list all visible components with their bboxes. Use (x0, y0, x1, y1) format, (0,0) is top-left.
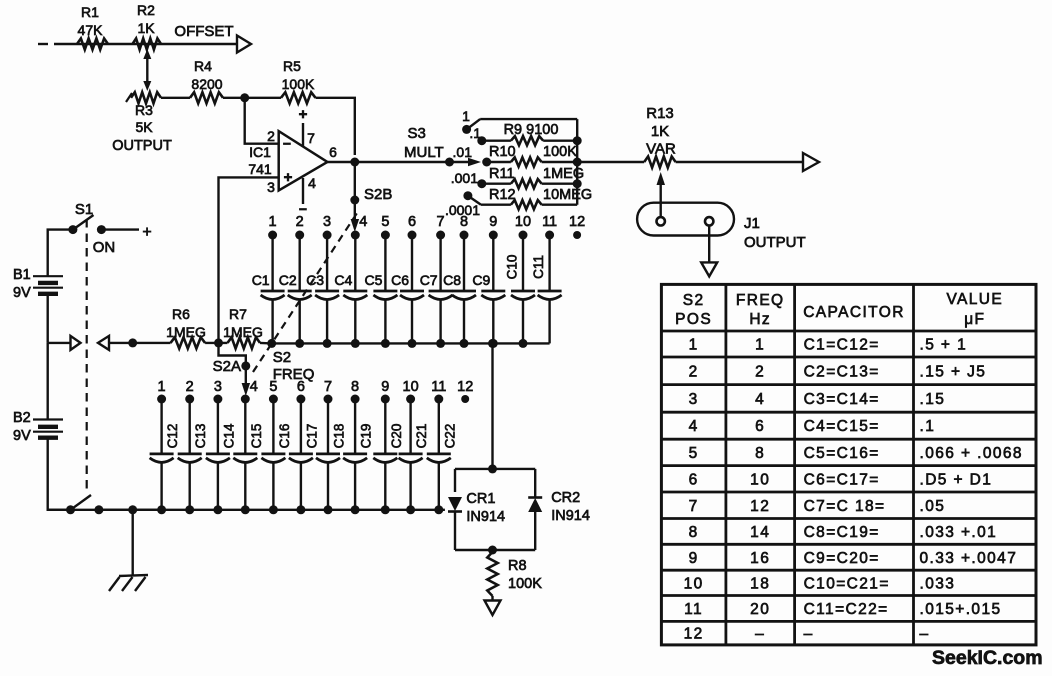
svg-text:C2=C13=: C2=C13= (804, 363, 880, 380)
op-amp minus input sign (283, 136, 291, 152)
S3 label 1 (462, 108, 470, 124)
node ground stem top (128, 338, 137, 347)
diode clamp box right upper (534, 469, 536, 497)
wire B2 to bottom (48, 438, 71, 510)
svg-text:R2: R2 (137, 2, 155, 18)
svg-text:OUTPUT: OUTPUT (744, 234, 806, 251)
S3 label .001 (451, 170, 478, 186)
S3 contact 1 (462, 119, 480, 134)
svg-text:5: 5 (689, 445, 699, 462)
svg-text:μF: μF (964, 311, 985, 328)
svg-text:.033 +.01: .033 +.01 (920, 524, 998, 541)
svg-text:C19: C19 (359, 424, 374, 449)
svg-text:0.33 +.0047: 0.33 +.0047 (920, 550, 1018, 567)
svg-text:C16: C16 (277, 424, 292, 449)
svg-text:R9 9100: R9 9100 (504, 122, 559, 138)
wire offset rail (54, 43, 237, 45)
label R2 1K (137, 2, 155, 36)
label J1 OUTPUT (744, 215, 806, 251)
svg-text:IN914: IN914 (466, 509, 505, 525)
resistor R5 (281, 92, 316, 103)
svg-text:6: 6 (689, 471, 699, 488)
svg-text:C5: C5 (364, 272, 382, 288)
battery mid tap arrow (48, 336, 81, 350)
svg-text:OUTPUT: OUTPUT (112, 138, 172, 154)
svg-text:CR1: CR1 (466, 491, 495, 507)
J1 tip terminal (657, 217, 665, 225)
node bus-R11 (573, 179, 582, 188)
S3 wiper arrow (450, 158, 482, 166)
wire S3 pos1 to bus (480, 118, 577, 120)
svg-text:C4=C15=: C4=C15= (804, 418, 880, 435)
svg-text:IN914: IN914 (551, 508, 590, 524)
resistor R8 (487, 552, 497, 596)
resistor R6 (171, 337, 206, 348)
svg-text:C21: C21 (414, 424, 429, 449)
resistor R3 (pot) (126, 92, 161, 103)
resistor R1 (77, 38, 108, 49)
diode clamp box right lower (534, 512, 536, 550)
wire R9 to bus (543, 139, 577, 141)
svg-text:C7=C 18=: C7=C 18= (804, 498, 886, 515)
diode clamp box top (455, 468, 535, 470)
wire R4-node (223, 97, 245, 99)
svg-text:C6=C17=: C6=C17= (804, 471, 880, 488)
label R8 100K (508, 558, 542, 592)
wire R12 to bus (542, 203, 578, 205)
svg-text:C11: C11 (531, 255, 546, 279)
pin 7 wire (302, 123, 304, 146)
svg-text:1MEG: 1MEG (223, 324, 263, 340)
S3 contact .01 (482, 158, 491, 167)
label ON (93, 239, 116, 256)
node clamp bottom (488, 546, 497, 555)
label R5 100K (282, 58, 315, 92)
label IC1 741 (248, 144, 272, 177)
wire B1 to mid (47, 294, 49, 343)
svg-text:C20: C20 (389, 424, 404, 449)
svg-text:1: 1 (158, 379, 166, 395)
wire B1-B2 (47, 343, 49, 420)
label R3 5K OUTPUT (112, 102, 172, 154)
label S3 MULT (404, 125, 444, 161)
switch S1 pole A (68, 215, 106, 234)
svg-text:C10: C10 (505, 255, 520, 280)
svg-text:C9=C20=: C9=C20= (804, 550, 880, 567)
label CR1 IN914 (466, 491, 505, 525)
svg-text:2: 2 (755, 363, 765, 380)
svg-text:6: 6 (408, 214, 416, 230)
svg-text:9: 9 (489, 214, 497, 230)
label R10 (489, 144, 516, 160)
wire R3-R4 (161, 97, 190, 99)
S2B pivot dot (350, 196, 359, 205)
resistor R12 (511, 200, 542, 209)
svg-text:3: 3 (214, 379, 222, 395)
pin 4 label (308, 175, 316, 191)
svg-text:.D5 + D1: .D5 + D1 (920, 471, 993, 488)
svg-text:12: 12 (750, 498, 770, 515)
wire pole B to bus (99, 509, 162, 511)
svg-text:CR2: CR2 (551, 490, 580, 506)
svg-text:R12: R12 (489, 187, 516, 203)
svg-text:B1: B1 (13, 267, 31, 283)
wire C9 column to clamp (491, 343, 493, 465)
label S2B (364, 186, 392, 203)
svg-text:1K: 1K (651, 123, 669, 140)
mid rail left arrow (98, 336, 109, 350)
svg-text:14: 14 (750, 524, 770, 541)
wire offset lead-in dash (38, 43, 48, 45)
svg-text:VALUE: VALUE (946, 291, 1003, 308)
svg-text:R13: R13 (646, 105, 674, 122)
svg-text:2: 2 (296, 214, 304, 230)
R2 wiper arrow (143, 49, 151, 91)
svg-text:100K: 100K (508, 576, 542, 592)
S2A position numbers 1-12 (158, 379, 474, 395)
S2A wiper arrow (242, 369, 251, 396)
svg-text:–: – (920, 626, 930, 643)
svg-text:4: 4 (755, 391, 765, 408)
svg-text:1: 1 (755, 337, 765, 354)
svg-text:C15: C15 (249, 424, 264, 449)
final output arrow (803, 153, 819, 171)
svg-text:POS: POS (675, 311, 712, 328)
node bus-R10 (573, 158, 582, 167)
S2B contact dots (268, 231, 581, 240)
svg-text:.15: .15 (920, 391, 946, 408)
svg-text:4: 4 (359, 214, 367, 230)
diode clamp box left lower (454, 512, 456, 551)
pin 7 label (307, 130, 315, 146)
svg-text:5: 5 (381, 214, 389, 230)
diode CR2 (528, 498, 542, 513)
offset output arrow (237, 36, 251, 53)
S3 label .0001 (445, 202, 480, 218)
wire opamp output (327, 161, 354, 163)
wire to pin 3 (219, 177, 279, 343)
wire output to S3 wiper (355, 161, 450, 163)
svg-text:C17: C17 (304, 424, 319, 449)
svg-text:7: 7 (689, 498, 699, 515)
bottom capacitor bus (48, 505, 445, 514)
node pin3 rail (214, 338, 223, 347)
wire feedback (316, 98, 355, 155)
svg-text:C22: C22 (442, 424, 457, 449)
label R13 1K VAR (646, 105, 676, 158)
label B2 9V (13, 410, 31, 444)
svg-text:100K: 100K (282, 76, 315, 92)
svg-text:R6: R6 (172, 306, 190, 322)
diode clamp box bottom (455, 549, 535, 551)
svg-text:C3: C3 (306, 272, 324, 288)
S2A pivot dot (241, 361, 250, 370)
ground stem (131, 510, 133, 575)
label 1MEG (543, 166, 584, 182)
svg-text:5K: 5K (135, 119, 153, 135)
svg-text:–: – (804, 626, 814, 643)
svg-text:2: 2 (186, 379, 194, 395)
svg-text:+: + (142, 224, 151, 241)
node bus-ground junction (128, 505, 137, 514)
pin 2 label (267, 128, 275, 144)
label S2A (213, 358, 241, 375)
svg-text:8: 8 (351, 379, 359, 395)
label 100K (543, 144, 577, 160)
svg-text:.001: .001 (451, 170, 478, 186)
svg-text:18: 18 (750, 575, 770, 592)
svg-text:C6: C6 (391, 272, 409, 288)
S3 wiper dot (445, 158, 454, 167)
pin 6 label (329, 144, 337, 160)
svg-text:C1=C12=: C1=C12= (804, 337, 880, 354)
label S2 FREQ (273, 349, 315, 383)
svg-text:MULT: MULT (404, 144, 444, 161)
table rows (684, 337, 1023, 643)
label CR2 IN914 (551, 490, 590, 524)
svg-text:7: 7 (307, 130, 315, 146)
resistor R10 (511, 157, 542, 166)
svg-text:C4: C4 (334, 272, 352, 288)
wire battery top (48, 230, 73, 277)
top capacitor bus (272, 339, 550, 348)
resistor R11 (511, 179, 542, 188)
svg-text:+: + (284, 169, 293, 186)
svg-text:C8: C8 (443, 272, 461, 288)
labels C1-C11 (252, 255, 547, 288)
svg-text:.01: .01 (453, 144, 473, 160)
wire .01 to R10 (487, 161, 511, 163)
svg-text:OFFSET: OFFSET (174, 23, 233, 40)
svg-text:S2: S2 (683, 292, 705, 309)
svg-text:8: 8 (755, 445, 765, 462)
svg-text:2: 2 (689, 363, 699, 380)
wire node-R5 (245, 97, 281, 99)
resistor R13 (644, 156, 675, 167)
svg-text:R5: R5 (283, 58, 301, 74)
svg-text:C5=C16=: C5=C16= (804, 445, 880, 462)
S3 contact .1 (477, 136, 486, 145)
svg-text:Hz: Hz (749, 311, 771, 328)
node bus-R9 (573, 136, 582, 145)
svg-text:C12: C12 (165, 424, 180, 449)
S2A feed wire (219, 343, 246, 362)
wire S1 to plus (101, 228, 139, 230)
battery B2 (33, 420, 63, 438)
svg-text:FREQ: FREQ (273, 366, 315, 383)
resistor R4 (190, 92, 223, 103)
svg-text:3: 3 (689, 391, 699, 408)
wire R6-R7 (205, 342, 227, 344)
svg-text:10: 10 (750, 471, 770, 488)
svg-text:1MEG: 1MEG (166, 324, 206, 340)
R13 wiper arrow (657, 172, 666, 217)
node clamp top (488, 464, 497, 473)
label R4 8200 (191, 58, 222, 92)
svg-text:C2: C2 (279, 272, 297, 288)
svg-text:3: 3 (323, 214, 331, 230)
svg-text:.15 + J5: .15 + J5 (920, 363, 987, 380)
svg-text:1: 1 (689, 337, 699, 354)
wire R10 to bus (542, 161, 578, 163)
svg-text:S3: S3 (408, 125, 426, 142)
op-amp plus input sign (284, 169, 293, 186)
svg-text:C18: C18 (332, 424, 347, 449)
svg-text:C10=C21=: C10=C21= (804, 575, 890, 592)
svg-text:8: 8 (460, 214, 468, 230)
wire to pin 2 (245, 98, 279, 144)
resistor R2 (pot) (133, 38, 162, 49)
svg-text:C14: C14 (221, 423, 236, 448)
pin 4 minus (299, 201, 307, 217)
node opamp output (350, 158, 359, 167)
svg-text:12: 12 (457, 379, 473, 395)
svg-text:ON: ON (93, 239, 116, 256)
wire R13 to output arrow (676, 161, 803, 163)
table header (675, 291, 1003, 328)
mid rail wire (109, 342, 171, 344)
svg-text:.5 + 1: .5 + 1 (920, 337, 968, 354)
svg-text:4: 4 (689, 418, 699, 435)
capacitors C1-C11 (261, 235, 562, 343)
svg-text:9: 9 (381, 379, 389, 395)
svg-text:10: 10 (515, 214, 531, 230)
svg-text:.066 + .0068: .066 + .0068 (920, 445, 1023, 462)
S3 contact .01 label (453, 144, 473, 160)
dashed gang link S1 (86, 219, 88, 494)
svg-text:6: 6 (329, 144, 337, 160)
svg-text:.05: .05 (920, 498, 946, 515)
svg-text:1: 1 (462, 108, 470, 124)
svg-text:CAPACITOR: CAPACITOR (803, 304, 905, 321)
label R12 (489, 187, 516, 203)
wire R8 to ground arrow (491, 596, 493, 601)
svg-text:.1: .1 (920, 418, 936, 435)
wire .1 to R9 (482, 139, 511, 141)
svg-text:11: 11 (542, 214, 557, 230)
labels C12-C22 (165, 423, 457, 448)
svg-text:.033: .033 (920, 575, 956, 592)
svg-text:11: 11 (431, 379, 446, 395)
label R6 1MEG (166, 306, 206, 340)
svg-text:9V: 9V (13, 285, 31, 301)
svg-text:−: − (283, 136, 291, 152)
svg-text:6: 6 (755, 418, 765, 435)
label OFFSET (174, 23, 233, 40)
label R1 47K (78, 4, 104, 38)
label S1 (75, 201, 93, 218)
svg-text:+: + (299, 106, 308, 123)
svg-text:20: 20 (750, 601, 770, 618)
watermark SeekIC.com (932, 647, 1043, 669)
J1 ground wire (708, 226, 710, 263)
pin 3 label (267, 179, 275, 195)
svg-text:11: 11 (684, 601, 703, 618)
svg-text:12: 12 (569, 214, 585, 230)
svg-text:.015+.015: .015+.015 (920, 601, 1002, 618)
svg-text:47K: 47K (78, 22, 104, 38)
jack J1 body (637, 203, 734, 236)
svg-text:6: 6 (297, 379, 305, 395)
diode clamp box left upper (454, 469, 456, 492)
svg-text:–: – (755, 626, 765, 643)
svg-text:9: 9 (689, 550, 699, 567)
diode CR1 (448, 497, 462, 512)
svg-text:10: 10 (403, 379, 419, 395)
label R9 9100 (504, 122, 559, 138)
R8 ground arrow (485, 601, 501, 616)
node S2 (267, 339, 276, 348)
svg-text:R7: R7 (229, 306, 247, 322)
S3 label .1 (469, 125, 481, 141)
svg-text:10: 10 (684, 575, 704, 592)
svg-text:VAR: VAR (646, 141, 676, 158)
svg-text:R4: R4 (194, 58, 212, 74)
capacitors C12-C22 (150, 399, 451, 510)
wire .001 to R11 (482, 182, 511, 184)
svg-text:SeekIC.com: SeekIC.com (932, 647, 1043, 669)
wire R11 to bus (542, 182, 578, 184)
svg-text:.1: .1 (469, 125, 481, 141)
svg-text:C8=C19=: C8=C19= (804, 524, 880, 541)
node clamp top feed (488, 339, 497, 348)
ground symbol (109, 575, 148, 591)
svg-text:3: 3 (267, 179, 275, 195)
S3 right bus (576, 119, 578, 205)
label plus (142, 224, 151, 241)
pin 4 wire (302, 178, 304, 204)
node feedback junction (240, 93, 249, 102)
pin 7 plus (299, 106, 308, 123)
svg-text:R10: R10 (489, 144, 516, 160)
svg-text:C11=C22=: C11=C22= (804, 601, 889, 618)
S2B position numbers 1-12 (269, 214, 586, 230)
svg-text:8: 8 (689, 524, 699, 541)
label 10MEG (543, 187, 592, 203)
svg-text:16: 16 (750, 550, 770, 567)
svg-text:C3=C14=: C3=C14= (804, 391, 880, 408)
svg-text:S2: S2 (273, 349, 291, 366)
wire bus to R13 (577, 161, 644, 163)
dashed gang link S2A-S2B (253, 210, 359, 372)
S3 contact .001 (477, 179, 486, 188)
svg-text:100K: 100K (543, 144, 577, 160)
svg-text:C13: C13 (193, 424, 208, 449)
S2B wiper arrow (351, 204, 360, 232)
svg-text:C9: C9 (472, 272, 490, 288)
svg-text:B2: B2 (13, 410, 31, 426)
svg-text:S2B: S2B (364, 186, 392, 203)
svg-text:C7: C7 (420, 272, 438, 288)
svg-text:10MEG: 10MEG (543, 187, 592, 203)
op-amp IC1 741 (279, 131, 328, 190)
svg-text:J1: J1 (744, 215, 760, 232)
table frame (661, 284, 1036, 645)
svg-text:8200: 8200 (191, 76, 222, 92)
svg-text:1: 1 (269, 214, 277, 230)
svg-text:4: 4 (250, 379, 258, 395)
svg-text:R1: R1 (81, 4, 99, 20)
label B1 9V (13, 267, 31, 301)
svg-text:R8: R8 (508, 558, 527, 574)
J1 ground arrow (701, 262, 717, 276)
svg-text:7: 7 (437, 214, 445, 230)
resistor R7 (228, 337, 261, 348)
svg-text:C1: C1 (252, 272, 270, 288)
label R7 1MEG (223, 306, 263, 340)
wire .0001 to R12 (481, 203, 511, 205)
svg-text:S1: S1 (75, 201, 93, 218)
